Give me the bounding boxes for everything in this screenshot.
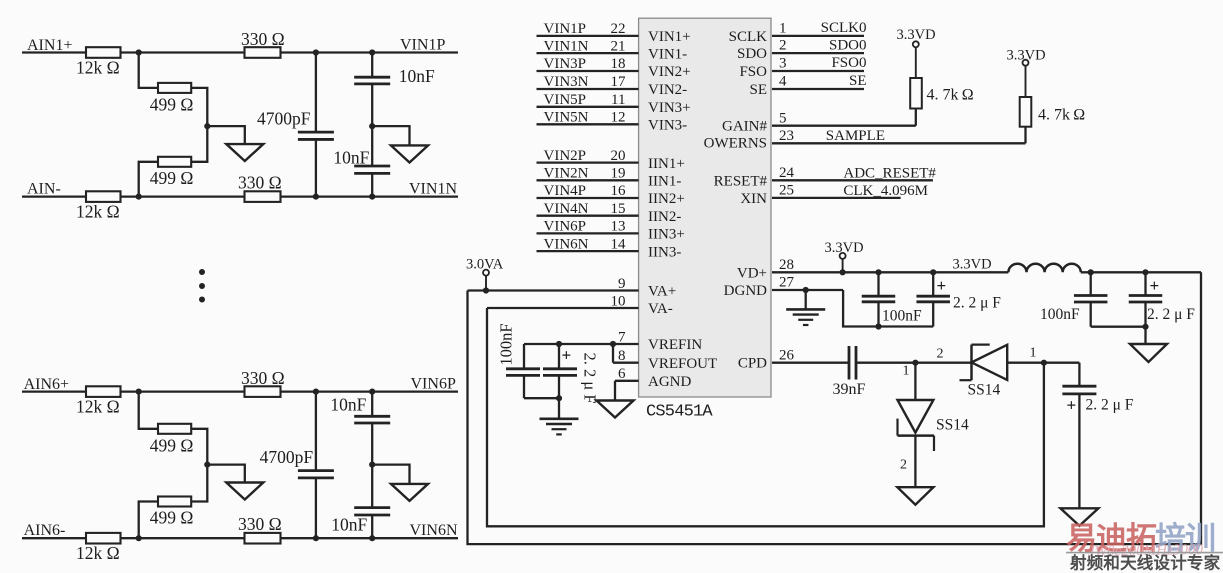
capacitor 10nF (upper): [354, 53, 390, 127]
power terminal 3.3VD (pin23 pull-up): [1023, 60, 1029, 97]
svg-text:SE: SE: [749, 82, 767, 98]
resistor R 12k ohm (bottom, AIN6-): [86, 533, 121, 544]
label 330 ohm (top): [241, 368, 285, 388]
junction 100nF bottom (DGND): [875, 323, 881, 329]
ellipsis dots between channel blocks: [199, 269, 205, 303]
svg-text:+: +: [937, 276, 947, 295]
pin label SCLK: [729, 29, 768, 45]
wire from bottom junction to lower 499 resistor: [139, 162, 158, 197]
svg-text:1: 1: [1030, 346, 1037, 361]
pin label VIN3-: [648, 118, 687, 134]
plus sign (VD+ 2.2uF): [937, 276, 947, 295]
wire net VIN5N to pin 12: [537, 123, 639, 125]
wire 4.7k to GAIN# line: [915, 109, 917, 126]
svg-text:IIN1-: IIN1-: [648, 174, 681, 190]
wire from upper 499 resistor to common node: [191, 88, 207, 126]
label 4700pF: [260, 447, 314, 467]
wire from top junction to upper 499 resistor: [139, 392, 158, 429]
capacitor 100nF (VREF): [506, 344, 540, 398]
pin label IIN3-: [648, 244, 681, 260]
wire pin 10 VA- line: [487, 307, 639, 309]
svg-text:3.3VD: 3.3VD: [825, 240, 864, 256]
label 330 ohm (bottom): [238, 514, 282, 534]
pin label VIN2+: [648, 64, 691, 80]
wire from upper 499 resistor to common node: [191, 429, 207, 465]
svg-text:19: 19: [611, 166, 626, 182]
label net VIN4N: [544, 201, 589, 217]
svg-text:CS5451A: CS5451A: [646, 403, 713, 422]
pin number 2 (D2 anode): [937, 346, 944, 361]
resistor R 499 ohm (lower): [158, 497, 191, 507]
pin label IIN2+: [648, 191, 685, 207]
ground (mid, right): [391, 145, 428, 162]
wire net VIN4P to pin 16: [537, 197, 639, 199]
wire net VIN5P to pin 11: [537, 106, 639, 108]
svg-text:2: 2: [779, 38, 787, 54]
wire pin 6 AGND line: [615, 381, 639, 401]
svg-text:VIN2N: VIN2N: [544, 166, 589, 182]
junction 2.2uF top (VD+ rail): [930, 269, 936, 275]
label 330 ohm (top): [241, 29, 285, 49]
pin label VD+: [737, 265, 767, 281]
label VIN6N: [410, 522, 458, 539]
op IC U1 CS5451A body: [639, 18, 771, 397]
node junction on AIN6- wire: [136, 535, 142, 541]
pin number 16: [611, 183, 627, 199]
label 3.3VD (pin23 pull-up): [1007, 48, 1046, 64]
junction 10nF chain bottom: [369, 535, 375, 541]
label 100nF (VD+): [882, 307, 922, 324]
pin number 22: [611, 21, 626, 37]
svg-text:12k Ω: 12k Ω: [76, 397, 120, 417]
pin label DGND: [724, 283, 767, 299]
label 2.2uF (3.0VA): [1147, 306, 1195, 323]
resistor R 4.7k (pin5 pull-up): [910, 78, 922, 109]
resistor R 499 ohm (upper): [158, 83, 191, 93]
svg-text:6: 6: [618, 366, 626, 382]
label 3.0VA: [466, 256, 504, 272]
svg-text:17: 17: [611, 74, 627, 90]
svg-text:ADC_RESET#: ADC_RESET#: [843, 165, 936, 181]
plus sign (VREF 2.2uF): [562, 346, 572, 365]
svg-text:AIN1+: AIN1+: [27, 37, 72, 54]
resistor R 12k ohm (top, AIN1+): [86, 47, 121, 58]
junction 3.0VA caps ground: [1142, 324, 1148, 330]
svg-text:39nF: 39nF: [833, 381, 866, 398]
svg-text:16: 16: [611, 183, 627, 199]
label net VIN4P: [544, 183, 587, 199]
capacitor 4700pF: [298, 53, 334, 197]
power terminal 3.3VD (VD+): [840, 253, 846, 272]
pin label IIN3+: [648, 227, 685, 243]
svg-text:CPD: CPD: [738, 356, 767, 372]
label 2.2uF (VREF, rotated): [581, 352, 600, 403]
svg-text:10nF: 10nF: [333, 148, 369, 168]
svg-text:12k Ω: 12k Ω: [76, 543, 120, 563]
svg-text:IIN3+: IIN3+: [648, 227, 685, 243]
wire pin 26 CPD: [772, 347, 849, 363]
svg-text:VIN2P: VIN2P: [544, 148, 587, 164]
svg-text:IIN3-: IIN3-: [648, 244, 681, 260]
svg-text:VIN1P: VIN1P: [544, 21, 587, 37]
pin number 1 (D1 cathode): [903, 363, 910, 378]
label 10nF (upper): [399, 66, 435, 86]
svg-text:24: 24: [779, 165, 795, 181]
pin label AGND: [648, 374, 691, 390]
capacitor 39nF (series): [849, 346, 856, 380]
label net VIN2N: [544, 166, 589, 182]
wire pin 24 ADC_RESET#: [772, 165, 933, 181]
svg-text:VIN4P: VIN4P: [544, 183, 587, 199]
ground (mid, left): [226, 144, 263, 161]
ground (charge pump cap): [1060, 508, 1098, 526]
junction 10nF chain mid: [369, 123, 375, 129]
svg-text:VD+: VD+: [737, 265, 767, 281]
svg-text:1: 1: [903, 363, 910, 378]
svg-text:2. 2 μ F: 2. 2 μ F: [953, 294, 1001, 311]
earth ground (VREF): [540, 398, 579, 434]
label 499 ohm (upper): [150, 94, 194, 114]
pin number 8: [618, 348, 626, 364]
wire net VIN1P to pin 22: [537, 35, 639, 37]
label VIN6P: [411, 376, 456, 393]
label net VIN2P: [544, 148, 587, 164]
ground (3.0VA caps): [1130, 344, 1167, 362]
wire common node to ground: [207, 126, 245, 144]
pin number 6: [618, 366, 626, 382]
pin number 13: [611, 219, 626, 235]
label net VIN3N: [544, 74, 589, 90]
svg-text:10nF: 10nF: [330, 395, 366, 415]
svg-text:3.3VD: 3.3VD: [897, 27, 936, 43]
wire pin 5 GAIN#: [772, 110, 916, 126]
pin label GAIN#: [722, 119, 767, 135]
svg-text:SCLK0: SCLK0: [821, 20, 867, 36]
wire from top junction to upper 499 resistor: [139, 53, 158, 88]
svg-text:RESET#: RESET#: [714, 173, 768, 189]
label net VIN6P: [544, 219, 587, 235]
pin number 9: [618, 276, 626, 292]
pin number 21: [611, 38, 626, 54]
wire net VIN1N to pin 21: [537, 52, 639, 54]
label net VIN3P: [544, 56, 587, 72]
pin label VIN1+: [648, 29, 691, 45]
pin label SDO: [737, 46, 767, 62]
pin label IIN1-: [648, 174, 681, 190]
resistor R 499 ohm (lower): [158, 157, 191, 167]
svg-text:3.0VA: 3.0VA: [466, 256, 504, 272]
svg-text:SE: SE: [849, 73, 867, 89]
junction 4700pF top: [313, 389, 319, 395]
svg-text:11: 11: [611, 92, 625, 108]
pin label VA-: [648, 301, 673, 317]
svg-text:VIN2-: VIN2-: [648, 82, 687, 98]
pin label VA+: [648, 284, 676, 300]
svg-text:499 Ω: 499 Ω: [150, 94, 194, 114]
svg-text:XIN: XIN: [740, 191, 767, 207]
svg-text:SS14: SS14: [968, 382, 1001, 399]
label CLK_4.096M: [843, 183, 928, 199]
svg-text:100nF: 100nF: [882, 307, 922, 324]
resistor R 330 ohm (bottom): [245, 191, 281, 202]
label 10nF (upper): [330, 395, 366, 415]
pin label VREFOUT: [648, 356, 717, 372]
resistor R 12k ohm (bottom, AIN1-): [86, 191, 121, 202]
wire AIN6+ input line: [22, 390, 458, 392]
svg-text:499 Ω: 499 Ω: [150, 435, 194, 455]
pin label VIN2-: [648, 82, 687, 98]
wire pin 25 CLK_4.096M: [772, 183, 901, 199]
resistor R 499 ohm (upper): [158, 424, 191, 434]
label ADC_RESET#: [843, 165, 936, 181]
svg-text:25: 25: [779, 183, 794, 199]
svg-text:VIN5N: VIN5N: [544, 110, 589, 126]
svg-text:12k Ω: 12k Ω: [76, 58, 120, 78]
svg-text:+: +: [1150, 276, 1160, 295]
pin label SE: [749, 82, 767, 98]
plus sign (3.0VA 2.2uF): [1150, 276, 1160, 295]
wire 3.0VA caps bottom: [1091, 326, 1146, 328]
svg-text:VIN6N: VIN6N: [544, 236, 589, 252]
wire DGND to cap bottoms: [843, 290, 933, 327]
capacitor 2.2uF (charge pump): [1062, 363, 1096, 509]
label 3.3VD (VD+): [825, 240, 864, 256]
label 12k ohm (top): [76, 397, 120, 417]
junction VREF top node: [556, 341, 562, 347]
svg-text:IIN1+: IIN1+: [648, 156, 685, 172]
wire AIN1- input line: [22, 195, 458, 197]
junction 10nF chain top: [369, 49, 375, 55]
svg-text:12k Ω: 12k Ω: [76, 202, 120, 222]
wire pin 28 VD+ rail: [772, 257, 1008, 273]
svg-text:9: 9: [618, 276, 626, 292]
wire AIN1+ input line: [22, 51, 458, 53]
label 499 ohm (upper): [150, 435, 194, 455]
pin number 15: [611, 201, 626, 217]
wire net VIN6P to pin 13: [537, 232, 639, 234]
junction 100nF top (VD+ rail): [875, 269, 881, 275]
svg-text:10: 10: [611, 293, 626, 309]
watermark slogan: [1069, 553, 1221, 573]
svg-text:2: 2: [900, 457, 907, 472]
pin number 1 (D2 cathode): [1030, 346, 1037, 361]
ground (mid, left): [226, 483, 263, 500]
pin number 19: [611, 166, 626, 182]
junction 4700pF bottom: [313, 194, 319, 200]
svg-text:VIN1P: VIN1P: [400, 37, 445, 54]
label 100nF (VREF, rotated): [497, 323, 516, 365]
svg-text:499 Ω: 499 Ω: [150, 508, 194, 528]
capacitor 2.2uF (VREF): [543, 344, 577, 398]
svg-text:3.3VD: 3.3VD: [1007, 48, 1046, 64]
node junction on AIN1- wire: [136, 194, 142, 200]
svg-text:SDO0: SDO0: [829, 37, 867, 53]
svg-text:23: 23: [779, 128, 794, 144]
wire VA+ loop (3.0VA): [468, 272, 1202, 544]
junction pin7-pin8 tie: [610, 341, 616, 347]
svg-text:26: 26: [779, 347, 795, 363]
label 12k ohm (top): [76, 58, 120, 78]
pin label CPD: [738, 356, 767, 372]
pin label OWERNS: [704, 136, 767, 152]
earth ground (DGND): [786, 290, 825, 325]
wire pin 27 DGND: [772, 275, 843, 291]
label 4.7k ohm (pin23): [1038, 107, 1085, 124]
svg-text:15: 15: [611, 201, 626, 217]
wire pin 3 FSO0: [772, 55, 867, 71]
wire VD+ rail after inductor: [1081, 271, 1201, 273]
capacitor 10nF (lower): [354, 465, 390, 539]
svg-text:VIN1N: VIN1N: [544, 38, 589, 54]
svg-text:18: 18: [611, 56, 626, 72]
svg-text:VIN1-: VIN1-: [648, 46, 687, 62]
svg-text:20: 20: [611, 148, 626, 164]
svg-text:330 Ω: 330 Ω: [241, 368, 285, 388]
pin label VREFIN: [648, 337, 702, 353]
svg-text:330 Ω: 330 Ω: [238, 514, 282, 534]
wire pin 2 SDO0: [772, 37, 867, 53]
svg-text:5: 5: [779, 110, 787, 126]
wire pin 7 VREFIN line: [524, 343, 639, 345]
svg-text:FSO: FSO: [739, 64, 767, 80]
pin label IIN1+: [648, 156, 685, 172]
svg-text:4: 4: [779, 74, 787, 90]
wire from bottom junction to lower 499 resistor: [139, 502, 158, 539]
label 4700pF: [257, 108, 311, 128]
svg-text:VIN5P: VIN5P: [544, 92, 587, 108]
label SS14 (D2): [968, 382, 1001, 399]
svg-text:12: 12: [611, 110, 626, 126]
svg-text:22: 22: [611, 21, 626, 37]
node junction on AIN6+ wire: [136, 389, 142, 395]
svg-text:+: +: [1067, 396, 1077, 415]
svg-text:SAMPLE: SAMPLE: [826, 128, 885, 144]
label 12k ohm (bottom): [76, 202, 120, 222]
junction node A: [912, 360, 918, 366]
label net VIN1P: [544, 21, 587, 37]
junction 10nF chain bottom: [369, 194, 375, 200]
svg-text:2. 2 μ F: 2. 2 μ F: [1086, 396, 1134, 413]
svg-text:100nF: 100nF: [497, 323, 516, 365]
svg-text:VIN6N: VIN6N: [410, 522, 458, 539]
capacitor 10nF (upper): [354, 392, 390, 465]
inductor L1 (supply filter): [1008, 264, 1080, 273]
junction 2.2uF top (3.0VA rail): [1142, 269, 1148, 275]
svg-text:VIN3P: VIN3P: [544, 56, 587, 72]
wire net VIN6N to pin 14: [537, 250, 639, 252]
capacitor 100nF (VD+): [862, 272, 896, 326]
ground AGND: [597, 401, 634, 418]
capacitor 100nF (3.0VA): [1074, 272, 1108, 326]
label AIN1+: [27, 37, 72, 54]
svg-text:AGND: AGND: [648, 374, 691, 390]
svg-text:2: 2: [937, 346, 944, 361]
svg-text:DGND: DGND: [724, 283, 767, 299]
wire 10nF mid node to ground: [372, 465, 409, 484]
wire 39nF to node A: [856, 362, 972, 364]
label 499 ohm (lower): [150, 508, 194, 528]
label 330 ohm (bottom): [238, 173, 282, 193]
resistor R 330 ohm (bottom): [245, 533, 281, 544]
junction 10nF chain top: [369, 389, 375, 395]
label AIN6+: [24, 376, 69, 393]
svg-text:CLK_4.096M: CLK_4.096M: [843, 183, 928, 199]
svg-text:VREFOUT: VREFOUT: [648, 356, 717, 372]
svg-text:OWERNS: OWERNS: [704, 136, 767, 152]
label net 3.3VD (rail): [953, 257, 992, 273]
svg-text:21: 21: [611, 38, 626, 54]
pin label VIN3+: [648, 100, 691, 116]
junction 3.3VD on VD+ rail: [840, 269, 846, 275]
svg-text:AIN-: AIN-: [27, 180, 61, 197]
svg-text:VIN3-: VIN3-: [648, 118, 687, 134]
svg-text:IIN2+: IIN2+: [648, 191, 685, 207]
svg-text:+: +: [562, 346, 572, 365]
pin label IIN2-: [648, 209, 681, 225]
wire VA- loop: [487, 308, 1044, 526]
plus sign (charge pump 2.2uF): [1067, 396, 1077, 415]
resistor R 330 ohm (top): [245, 47, 281, 58]
svg-text:4700pF: 4700pF: [260, 447, 314, 467]
label 10nF (lower): [333, 148, 369, 168]
pin label VIN1-: [648, 46, 687, 62]
svg-text:13: 13: [611, 219, 626, 235]
wire VREF caps bottom: [524, 397, 559, 399]
svg-text:27: 27: [779, 275, 795, 291]
wire pin 4 SE: [772, 73, 867, 89]
capacitor 10nF (lower): [354, 126, 390, 196]
label AIN1-: [27, 180, 61, 197]
capacitor 4700pF: [298, 392, 334, 539]
label net VIN1N: [544, 38, 589, 54]
svg-text:330 Ω: 330 Ω: [238, 173, 282, 193]
label SS14 (D1): [936, 416, 969, 433]
pin number 2 (D1 anode): [900, 457, 907, 472]
junction 3.0VA on VA+ line: [483, 287, 489, 293]
resistor R 12k ohm (top, AIN6+): [86, 386, 121, 397]
svg-text:7: 7: [618, 329, 626, 345]
wire net VIN2N to pin 19: [537, 179, 639, 181]
pin number 10: [611, 293, 626, 309]
power terminal 3.0VA: [483, 270, 489, 291]
svg-text:1: 1: [779, 21, 787, 37]
wire pin 9 VA+ line: [468, 289, 639, 291]
junction 100nF top (3.0VA rail): [1088, 269, 1094, 275]
svg-text:射频和天线设计专家: 射频和天线设计专家: [1069, 553, 1221, 573]
svg-text:AIN6+: AIN6+: [24, 376, 69, 393]
junction DGND ground tap: [803, 287, 809, 293]
svg-text:VIN6P: VIN6P: [544, 219, 587, 235]
svg-text:4. 7k Ω: 4. 7k Ω: [927, 87, 974, 104]
label 499 ohm (lower): [150, 168, 194, 188]
label 100nF (3.0VA): [1040, 306, 1080, 323]
junction 4700pF bottom: [313, 535, 319, 541]
label 12k ohm (bottom): [76, 543, 120, 563]
svg-text:VIN1N: VIN1N: [409, 180, 457, 197]
wire to ground (3.0VA caps): [1144, 327, 1146, 344]
resistor R 4.7k (pin23 pull-up): [1020, 97, 1032, 127]
svg-text:10nF: 10nF: [331, 515, 367, 535]
pin label XIN: [740, 191, 767, 207]
pin number 20: [611, 148, 626, 164]
wire from lower 499 resistor to common node: [191, 126, 207, 162]
wire pin 1 SCLK0: [772, 20, 867, 36]
resistor R 330 ohm (top): [245, 386, 281, 397]
svg-text:2. 2 μ F: 2. 2 μ F: [581, 352, 600, 403]
svg-text:IIN2-: IIN2-: [648, 209, 681, 225]
svg-text:SCLK: SCLK: [729, 29, 768, 45]
svg-text:VIN3+: VIN3+: [648, 100, 691, 116]
